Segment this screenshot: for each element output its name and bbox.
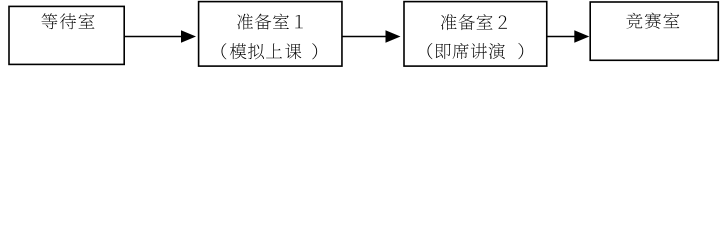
box 准备室2 xyxy=(404,2,547,67)
box 准备室1 xyxy=(199,2,342,67)
text 准备室2 xyxy=(441,14,507,30)
flowchart diagram xyxy=(0,0,725,69)
arrow 1 head xyxy=(181,30,196,42)
text （模拟上课） xyxy=(221,43,317,59)
box 等待室 xyxy=(9,6,124,64)
arrow 3 shaft xyxy=(547,36,576,38)
text 竞赛室 xyxy=(626,13,679,29)
arrow 2 shaft xyxy=(342,36,387,38)
arrow 2 head xyxy=(386,30,401,42)
text 准备室1 xyxy=(237,14,302,30)
box 竞赛室 xyxy=(590,2,718,60)
arrow 3 head xyxy=(574,30,589,42)
arrow 1 shaft xyxy=(124,36,182,38)
text （即席讲演） xyxy=(427,43,523,59)
text 等待室 xyxy=(42,13,95,29)
